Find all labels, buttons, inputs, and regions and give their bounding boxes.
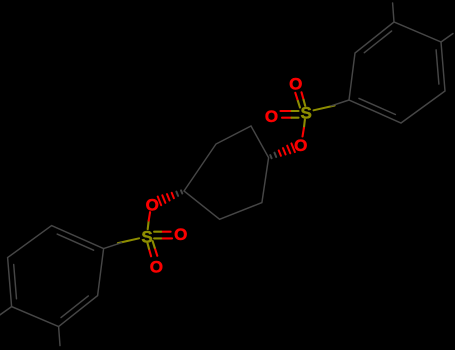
S=O double bond left (top group) line b: [282, 117, 292, 119]
S-O ester bond (top group): [303, 120, 305, 137]
svg-text:O: O: [289, 75, 302, 94]
cyclohexane ring C1-C6: [184, 126, 269, 219]
S=O double bond down (bottom group) line b: [149, 249, 151, 256]
benzene bottom inner double bond 1: [14, 265, 17, 299]
S=O double bond right (bottom group) line a: [154, 232, 172, 239]
methyl stub top-right (clipped): [441, 34, 453, 43]
wire S2-C aryl bond (bottom): [104, 238, 140, 248]
S=O double bond down (bottom group) line a: [147, 241, 157, 256]
benzene bottom inner double bond 3: [57, 234, 93, 250]
svg-text:O: O: [294, 136, 307, 155]
benzene ring top (tolyl): [349, 22, 445, 123]
methyl stub top (clipped): [393, 3, 394, 22]
hashed wedge bond C4-O (top): [270, 143, 295, 158]
S=O double bond up (top group) line a: [295, 92, 305, 107]
S=O double bond right (bottom group) line b: [161, 231, 171, 233]
svg-text:O: O: [146, 195, 159, 214]
S-O ester bond (bottom group): [148, 212, 150, 229]
S=O double bond left (top group) line a: [281, 111, 299, 118]
svg-text:O: O: [265, 107, 278, 126]
benzene top inner double bond 1: [436, 50, 439, 84]
benzene top inner double bond 3: [359, 98, 395, 114]
benzene top inner double bond 2: [364, 31, 391, 53]
methyl stub bottom (clipped): [59, 327, 60, 346]
svg-text:O: O: [150, 258, 163, 277]
benzene ring bottom (tolyl): [8, 226, 104, 327]
wire S1-C aryl bond (top): [314, 100, 350, 110]
svg-text:O: O: [174, 225, 187, 244]
hashed wedge bond C1-O (bottom): [158, 190, 183, 205]
methyl stub bottom-left (clipped): [0, 307, 12, 316]
benzene bottom inner double bond 2: [61, 296, 88, 318]
svg-text:S: S: [141, 228, 152, 247]
svg-text:S: S: [301, 104, 312, 123]
S=O double bond up (top group) line b: [302, 92, 304, 100]
